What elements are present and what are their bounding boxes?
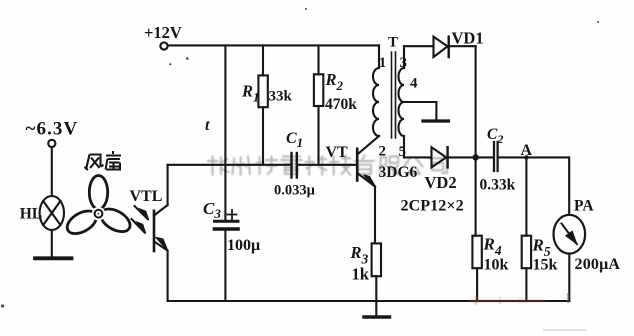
svg-text:1k: 1k (352, 265, 370, 284)
diode VD2 (432, 147, 447, 167)
resistor R5 (525, 157, 527, 235)
wire: left vertical VTL collector column (167, 165, 169, 205)
svg-text:4: 4 (410, 76, 418, 92)
svg-text:0.033μ: 0.033μ (274, 183, 316, 199)
fan blade right (97, 204, 134, 236)
svg-text:T: T (388, 35, 398, 51)
svg-text:1: 1 (379, 55, 387, 71)
fan blade left (63, 206, 100, 238)
capacitor C3 (215, 220, 239, 223)
wire: left vertical VTL emitter column (167, 252, 169, 301)
svg-text:100μ: 100μ (227, 237, 260, 254)
wire: secondary top to VD1 (404, 45, 433, 47)
transformer T primary (378, 45, 380, 68)
fan blade top (89, 176, 107, 210)
wire: dropper x=225 from rail to C3 (224, 45, 226, 220)
resistor R2 (317, 45, 319, 74)
node A dot (524, 155, 528, 159)
svg-text:R2: R2 (325, 70, 344, 93)
wire: mid horizontal net right segment (298, 164, 356, 166)
transformer T secondary (403, 46, 405, 68)
svg-text:15k: 15k (533, 257, 558, 274)
svg-text:C3: C3 (203, 199, 221, 221)
svg-text:0.33k: 0.33k (480, 177, 516, 194)
diode VD1 (434, 37, 448, 57)
transformer centre tap pin4 to ground (404, 102, 436, 120)
wire: VT emitter to R3 (374, 187, 376, 244)
svg-text:R4: R4 (483, 235, 502, 259)
svg-text:R1: R1 (241, 82, 260, 105)
svg-text:+12V: +12V (144, 23, 182, 42)
capacitor C1 (290, 153, 292, 178)
wire: mid horizontal net left segment (168, 164, 291, 166)
wire: C2 to A to meter (498, 157, 570, 214)
resistor R4 (472, 236, 481, 269)
svg-text:R3: R3 (350, 243, 369, 267)
svg-text:PA: PA (574, 198, 594, 215)
svg-text:10k: 10k (484, 257, 509, 274)
red watermark remnants on bottom rail (470, 296, 545, 305)
faint grey smudge bottom right (543, 329, 586, 331)
svg-text:200μA: 200μA (575, 256, 621, 273)
svg-text:t: t (205, 117, 210, 134)
svg-text:5: 5 (399, 144, 407, 160)
svg-text:A: A (521, 142, 533, 159)
svg-text:~6.3V: ~6.3V (26, 119, 79, 140)
node: junction dot VD1/VD2 (472, 154, 478, 160)
capacitor C2 (493, 142, 495, 171)
VTL light arrows (135, 206, 148, 219)
svg-text:2CP12×2: 2CP12×2 (401, 197, 464, 215)
label 扇 (106, 151, 122, 170)
ground below R3 (364, 315, 390, 318)
svg-text:HL: HL (20, 206, 42, 223)
node: +12V terminal (160, 42, 167, 49)
wire: +12V top rail (168, 44, 379, 46)
watermark grey company text row (208, 156, 447, 175)
wire: right vertical from VD1 (475, 46, 477, 236)
svg-text:VD1: VD1 (452, 29, 484, 48)
transformer core (392, 52, 396, 138)
svg-text:3: 3 (400, 55, 408, 71)
svg-text:VT: VT (326, 144, 349, 161)
wire: terminal to lamp (51, 147, 53, 196)
svg-text:C1: C1 (286, 130, 303, 150)
label 风 (85, 155, 104, 171)
lamp HL (40, 196, 64, 230)
wire: pin5 to VD2 (404, 156, 431, 158)
wire: lamp to end bar (51, 230, 53, 257)
resistor R3 (372, 243, 381, 276)
fan hub (92, 207, 106, 221)
wire: bottom rail (168, 300, 570, 302)
terminal ~6.3V (48, 140, 55, 147)
svg-text:3DG6: 3DG6 (379, 164, 418, 181)
resistor R1 (262, 45, 264, 75)
phototransistor VTL (153, 211, 156, 251)
transistor VT (356, 149, 359, 181)
svg-text:33k: 33k (269, 89, 293, 105)
svg-text:VD2: VD2 (425, 173, 457, 192)
svg-text:470k: 470k (325, 96, 357, 113)
svg-text:2: 2 (379, 144, 387, 160)
svg-text:C2: C2 (487, 126, 503, 146)
svg-text:VTL: VTL (130, 188, 163, 205)
meter PA (554, 215, 586, 254)
svg-text:R5: R5 (532, 236, 551, 260)
